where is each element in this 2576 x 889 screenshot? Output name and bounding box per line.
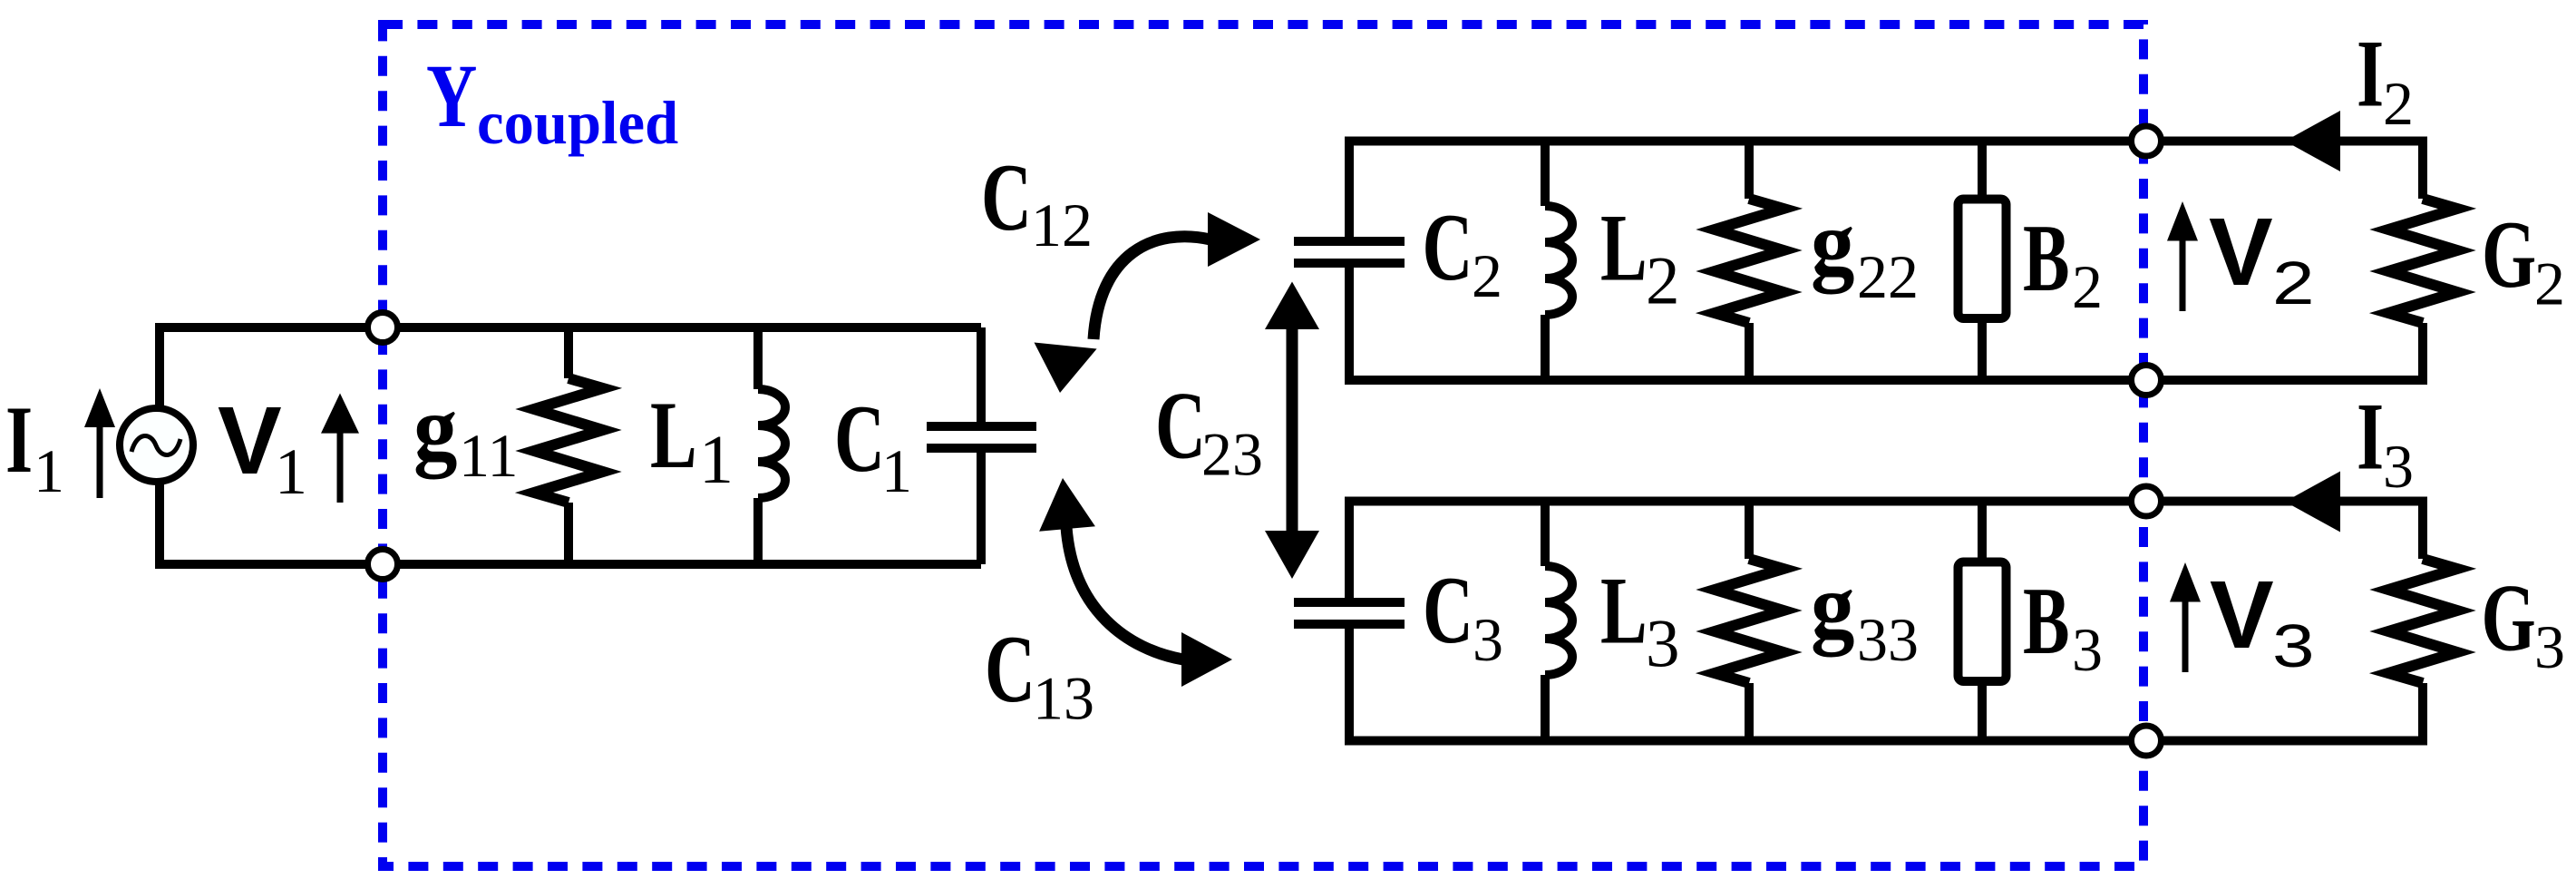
Y_coupled dashed boundary box — [383, 24, 2143, 866]
resistor g33 — [1715, 502, 1784, 741]
svg-text:I: I — [2357, 384, 2384, 491]
coupling arrow C13 — [1039, 478, 1232, 687]
wire tank2 bottom rail — [1349, 376, 2423, 385]
svg-text:V: V — [2210, 562, 2274, 669]
label g22 — [1811, 191, 1919, 311]
arrow V3 voltage direction — [2170, 562, 2201, 672]
inductor L2 — [1545, 142, 1572, 381]
capacitor C3 — [1294, 497, 1405, 746]
arrow I3 current direction — [2285, 472, 2340, 532]
svg-text:B: B — [2023, 568, 2070, 675]
svg-text:1: 1 — [275, 435, 307, 508]
label g11 — [413, 376, 518, 490]
svg-text:1: 1 — [34, 436, 64, 505]
label Y_coupled — [426, 46, 678, 157]
svg-text:G: G — [2482, 201, 2536, 308]
load conductance G2 — [2388, 137, 2457, 386]
svg-text:coupled: coupled — [477, 88, 678, 157]
label L3 — [1600, 558, 1680, 682]
svg-text:C: C — [1423, 194, 1473, 301]
svg-text:3: 3 — [2383, 432, 2414, 501]
svg-text:1: 1 — [699, 422, 734, 498]
svg-text:23: 23 — [1201, 419, 1263, 488]
resistor g22 — [1715, 142, 1784, 381]
wire tank1 top rail — [160, 323, 981, 332]
label C2 — [1423, 194, 1503, 310]
node port2 bottom — [2132, 366, 2162, 396]
svg-text:C: C — [981, 144, 1032, 251]
svg-text:2: 2 — [1472, 241, 1502, 310]
svg-text:22: 22 — [1857, 242, 1919, 311]
label L1 — [650, 382, 734, 498]
svg-text:C: C — [1155, 373, 1206, 480]
wire tank3 top rail — [1349, 497, 2423, 506]
label V3 — [2210, 562, 2315, 680]
wire tank1 left edge upper — [155, 323, 164, 407]
svg-text:1: 1 — [881, 436, 912, 505]
susceptance B3 box — [1959, 502, 2007, 741]
svg-text:3: 3 — [2272, 612, 2315, 680]
label g33 — [1811, 554, 1919, 674]
svg-text:2: 2 — [2272, 249, 2315, 317]
capacitor C2 — [1294, 137, 1405, 386]
label C3 — [1423, 557, 1503, 674]
label C23 — [1155, 373, 1263, 489]
label I3 — [2357, 384, 2414, 501]
arrow I1 current direction — [84, 388, 115, 498]
node port1 bottom — [368, 550, 398, 580]
wire tank1 left edge lower — [155, 484, 164, 569]
svg-text:3: 3 — [2534, 612, 2565, 681]
svg-text:g: g — [1811, 191, 1854, 295]
svg-text:3: 3 — [1646, 607, 1680, 682]
svg-text:Y: Y — [426, 46, 477, 146]
resistor g11 — [534, 327, 603, 564]
wire tank1 bottom rail — [160, 560, 981, 569]
svg-text:V: V — [218, 387, 282, 494]
coupling arrow C12 — [1035, 212, 1261, 393]
current source I1 — [120, 408, 193, 482]
label C13 — [985, 616, 1094, 732]
svg-text:C: C — [985, 616, 1035, 723]
coupling arrow C23 — [1265, 282, 1319, 580]
svg-text:B: B — [2023, 205, 2070, 312]
label B2 — [2023, 205, 2103, 321]
svg-text:3: 3 — [1473, 605, 1503, 674]
svg-text:L: L — [650, 382, 697, 489]
node port1 top — [368, 313, 398, 343]
wire tank3 bottom rail — [1349, 737, 2423, 746]
svg-text:C: C — [1423, 557, 1473, 664]
label C12 — [981, 144, 1093, 259]
inductor L1 — [758, 327, 785, 564]
svg-text:11: 11 — [459, 421, 518, 490]
label I1 — [5, 386, 64, 505]
svg-text:V: V — [2209, 199, 2273, 306]
node port2 top — [2132, 126, 2162, 156]
label C1 — [834, 386, 912, 505]
svg-text:12: 12 — [1031, 190, 1093, 259]
svg-text:g: g — [1811, 554, 1854, 658]
label L2 — [1600, 195, 1680, 319]
arrow V1 voltage direction — [321, 394, 359, 503]
label V1 — [218, 387, 307, 508]
node port3 top — [2132, 486, 2162, 516]
node port3 bottom — [2132, 726, 2162, 756]
label I2 — [2357, 21, 2414, 138]
svg-text:G: G — [2482, 565, 2536, 672]
svg-text:33: 33 — [1857, 605, 1919, 674]
label V2 — [2209, 199, 2315, 317]
inductor L3 — [1545, 502, 1572, 741]
wire tank2 top rail — [1349, 137, 2423, 146]
capacitor C1 — [927, 327, 1036, 564]
label G2 — [2482, 201, 2565, 317]
svg-text:L: L — [1600, 558, 1648, 665]
svg-text:2: 2 — [1646, 244, 1680, 319]
svg-text:13: 13 — [1033, 664, 1094, 733]
arrow I2 current direction — [2285, 111, 2340, 171]
svg-text:g: g — [413, 376, 457, 480]
arrow V2 voltage direction — [2167, 201, 2198, 311]
label B3 — [2023, 568, 2103, 684]
svg-text:2: 2 — [2383, 69, 2414, 138]
svg-text:2: 2 — [2534, 249, 2565, 318]
svg-text:2: 2 — [2072, 252, 2103, 321]
svg-text:C: C — [834, 386, 885, 493]
svg-text:L: L — [1600, 195, 1648, 302]
svg-text:I: I — [2357, 21, 2384, 128]
svg-text:I: I — [5, 386, 33, 493]
label G3 — [2482, 565, 2566, 681]
susceptance B2 box — [1959, 142, 2007, 381]
load conductance G3 — [2388, 497, 2457, 746]
svg-text:3: 3 — [2072, 615, 2103, 684]
